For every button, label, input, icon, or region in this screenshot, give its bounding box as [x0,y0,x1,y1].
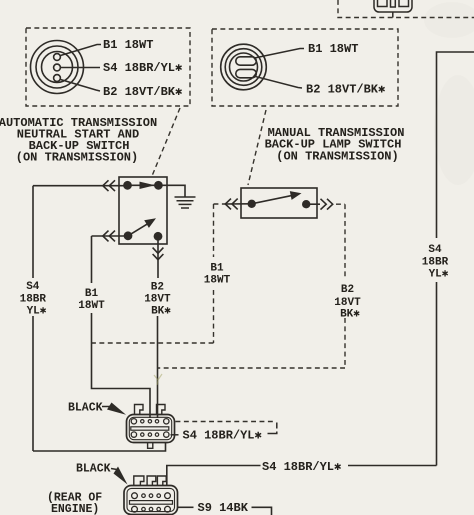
connector C2 pin B1 [236,57,256,65]
scan artifact (faint green mark) [154,374,162,385]
svg-text:ENGINE): ENGINE) [51,503,99,515]
leader arrow BLACK to C4 [111,469,117,470]
label automatic transmission switch [0,116,157,165]
leader pin S4 [61,67,100,69]
svg-text:BK✱: BK✱ [151,306,171,318]
wire S9 right segment [252,507,272,515]
leader pin B1 [255,49,305,59]
ground wire from switch [158,185,185,197]
wire S4 bottom horizontal right part [348,465,437,467]
svg-text:B2: B2 [341,284,354,296]
label B1 18WT (manual) [204,263,231,287]
dashed wire B1 vertical upper [213,204,215,257]
inline connector marks on B2 wire [153,248,164,254]
terminal S4 (top left) [123,181,132,190]
closed contact arrow (top) [128,184,159,186]
svg-text:S4 18BR/YL✱: S4 18BR/YL✱ [103,61,182,75]
inline connector marks manual left [225,199,231,210]
open contact arrow [252,196,291,204]
svg-text:BLACK: BLACK [68,402,103,415]
svg-text:18WT: 18WT [78,300,105,312]
svg-text:18BR: 18BR [422,257,449,269]
wire S4 right vertical lower [436,282,438,466]
inline connector marks on S4 wire [103,180,109,191]
svg-text:B2 18VT/BK✱: B2 18VT/BK✱ [103,85,182,99]
faint scan ghosting [424,2,474,185]
wire B1 vertical lower into connector C3 [92,313,151,418]
svg-text:YL✱: YL✱ [27,306,47,318]
svg-text:BLACK: BLACK [76,463,111,476]
wire S4 bottom horizontal left part into connector C4 [167,466,261,487]
svg-text:YL✱: YL✱ [429,269,449,281]
leader pin B2 [61,80,101,92]
label B2 18VT BK* (manual) [334,284,361,321]
connector C2 pin B2 [236,69,256,77]
connector C1 pin S4 [54,64,61,71]
label S4 18BR YL* (right) [422,244,449,281]
connector C1 face circles [31,41,84,94]
wire S4 vertical upper [32,186,34,278]
manual transmission back-up lamp switch S2 [241,188,317,218]
connector C3 pins bottom row [131,432,136,437]
dashed wire B2 corner [336,203,345,205]
connector C3 key slot [131,427,169,430]
connector C4 key slot [130,501,173,505]
dashed wire B1 vertical lower [213,290,215,343]
svg-text:B1: B1 [85,288,99,300]
dashed wire B2 join to solid B2 [158,367,346,369]
svg-text:B1: B1 [210,263,224,275]
svg-text:(ON TRANSMISSION): (ON TRANSMISSION) [276,150,398,164]
wire S4 from switch to corner [33,185,125,187]
wire B1 vertical upper [91,236,93,283]
connector C3 bottom tab [148,443,153,449]
svg-text:B2: B2 [151,282,164,294]
inline connector marks manual right [321,199,327,210]
connector C3 top lock tabs [135,405,144,415]
label wire S4 18BR/YL* at C3 [176,421,276,423]
open contact arrow (bottom) [128,224,147,236]
leader arrow BLACK to C3 [102,406,110,408]
svg-text:S4 18BR/YL✱: S4 18BR/YL✱ [183,429,262,443]
svg-text:S4: S4 [26,281,40,293]
connector C4 black (rear of engine) [124,476,178,515]
svg-text:S9 14BK: S9 14BK [198,501,249,515]
leader from connector C1 box to automatic switch [152,108,180,176]
label B1 18WT [78,288,105,312]
inline connector marks on B1 wire [103,231,109,242]
wire B2 vertical lower into connector C3 [157,316,159,418]
svg-text:S4 18BR/YL✱: S4 18BR/YL✱ [262,460,341,474]
svg-text:18WT: 18WT [204,275,231,287]
label S4 18BR YL* [20,281,47,318]
svg-text:B1 18WT: B1 18WT [103,38,153,52]
wire S9 from connector C4 [178,506,194,508]
wire S4 bottom run to connector C3 [33,442,166,451]
connector C2 face circles [221,44,267,90]
label B2 18VT BK* [144,282,171,318]
wire S4 right from off-page [437,52,474,238]
connector C1 pin B2 [54,75,61,82]
terminal B2 (bottom right) [154,232,163,241]
svg-text:BK✱: BK✱ [340,309,360,321]
connector C1 pin B1 [54,54,61,61]
terminal ground (top right) [154,181,163,190]
connector C3 black (engine harness) [127,405,175,449]
wire from manual switch left terminal [224,203,252,205]
connector C4 pins bottom row [132,506,138,512]
terminal B2 (right) [302,200,310,208]
connector C3 pins top row [131,419,136,424]
top inline connector (cut off at image top) [374,0,412,12]
leader pin B1 [61,45,102,56]
svg-text:B2 18VT/BK✱: B2 18VT/BK✱ [306,83,385,97]
svg-text:18VT: 18VT [334,297,361,309]
leader pin B2 [254,76,303,88]
dashed wire B1 corner [214,203,225,205]
connector C4 top lock tabs [134,476,144,486]
svg-text:18VT: 18VT [144,294,171,306]
svg-text:18BR: 18BR [20,294,47,306]
svg-text:S4: S4 [428,244,442,256]
dashed wire at top [338,0,474,18]
wire from manual switch right terminal [306,203,320,205]
terminal B1 (bottom left) [124,231,133,240]
dashed wire B2 vertical lower [344,318,346,368]
wire B2 from switch down [157,236,159,278]
label manual transmission switch [265,126,405,164]
terminal B1 (left) [248,200,256,208]
wire B1 from switch to corner [92,235,126,237]
stem of top connector [392,12,394,18]
leader from connector C2 box to manual switch [248,110,266,185]
svg-text:(ON TRANSMISSION): (ON TRANSMISSION) [16,151,138,165]
connector C1 detail box (automatic transmission switch connector) [26,28,190,106]
automatic transmission neutral start and back-up switch S1 [119,177,167,244]
dashed wire B1 join to solid B1 [92,342,214,344]
svg-text:B1 18WT: B1 18WT [308,42,358,56]
wire S4 vertical lower [32,316,34,451]
ground G1 [175,197,196,208]
dashed wire B2 vertical upper [344,204,346,278]
connector C4 pins top row [132,493,138,499]
connector C2 detail box (manual transmission switch connector) [212,29,398,106]
